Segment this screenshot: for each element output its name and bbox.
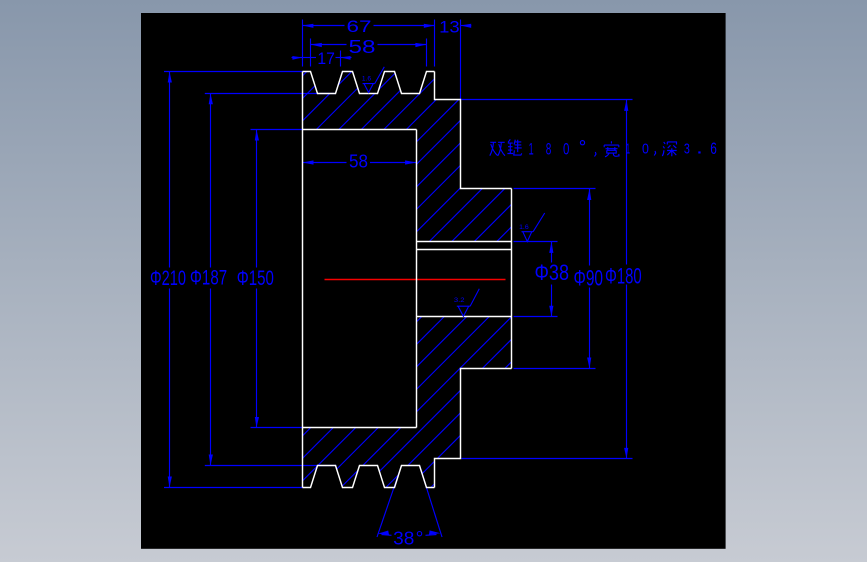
bore top edge [417, 249, 512, 251]
svg-text:0: 0 [642, 141, 649, 158]
svg-text:6: 6 [710, 140, 717, 158]
surface finish symbol groove top 1.6 [363, 67, 545, 316]
red centerline [325, 279, 506, 281]
svg-text:1.6: 1.6 [362, 77, 372, 83]
svg-text:13: 13 [439, 17, 460, 36]
dim Φ90 extension top [514, 188, 596, 190]
CJK 双 [490, 142, 505, 155]
web right face [416, 130, 418, 428]
dim 13 line stubs [461, 25, 472, 27]
Φ210 arrows [168, 72, 172, 83]
svg-text:Φ38: Φ38 [535, 260, 570, 285]
dim Φ187 extension bottom [205, 465, 337, 467]
degree circle [580, 141, 584, 145]
svg-text:1: 1 [626, 141, 630, 158]
Φ90 arrows [587, 189, 591, 201]
svg-text:67: 67 [347, 17, 372, 36]
dim 67 extension right [434, 20, 436, 67]
web top edge [303, 129, 417, 131]
dim 38 deg extension left [377, 466, 402, 538]
svg-text:Φ150: Φ150 [237, 267, 274, 290]
dim Φ187 line [210, 94, 212, 268]
dim Φ38 line [551, 242, 553, 263]
svg-text:58: 58 [349, 37, 376, 57]
67 arrows [303, 24, 314, 28]
Φ150 arrows [255, 130, 259, 141]
dim Φ180 line [626, 100, 628, 265]
pulley left face [302, 72, 304, 488]
hatch lines 45deg [0, 56, 867, 501]
keyway top line [417, 241, 512, 243]
svg-text:Φ180: Φ180 [605, 264, 642, 289]
svg-text:17: 17 [317, 49, 335, 68]
dim 58 top extension right [426, 39, 428, 67]
dim 58 top line [311, 44, 347, 46]
dim 17 line + outside arrow tails [292, 57, 303, 59]
58 top arrows [311, 43, 322, 47]
svg-text:1.6: 1.6 [519, 225, 529, 231]
dim Φ150 extension bottom [251, 427, 303, 429]
dim 38 deg extension right [420, 466, 443, 538]
bore bottom edge [417, 316, 512, 318]
svg-text:3.2: 3.2 [454, 297, 465, 304]
svg-text:Φ90: Φ90 [574, 266, 604, 291]
17 outside arrows [292, 56, 302, 60]
svg-text:3: 3 [684, 141, 690, 158]
dim Φ90 extension bottom [514, 368, 596, 370]
svg-text:1: 1 [529, 140, 534, 159]
dim Φ38 extension top [514, 241, 558, 243]
dim Φ150 line [256, 130, 258, 268]
dim Φ210 extension top [164, 71, 303, 73]
svg-text:58: 58 [349, 151, 368, 171]
38 deg arrows [377, 531, 389, 535]
degree symbol of 38 deg [417, 532, 421, 536]
surface finish symbol bore top 1.6 [522, 213, 545, 242]
fullwidth dot [698, 151, 700, 153]
dim Φ210 line [169, 72, 171, 268]
svg-text:8: 8 [546, 140, 552, 159]
Φ180 arrows [624, 100, 628, 111]
svg-text:0: 0 [563, 140, 569, 159]
dim Φ180 extension top [462, 99, 633, 101]
web bottom edge [303, 427, 417, 429]
dimension texts [150, 17, 642, 549]
dim 67 extension left [302, 20, 304, 67]
dim Φ210 extension bottom [164, 487, 303, 489]
dim Φ150 extension top [251, 129, 303, 131]
dim 38 deg arc stubs [382, 534, 392, 537]
dim 67 line [303, 25, 345, 27]
note text: 双键180°，宽10，深3.6 [490, 139, 717, 158]
CJK 宽 [604, 141, 619, 157]
surface finish symbol bore bottom 3.2 [457, 289, 480, 317]
comma 1 [595, 152, 597, 157]
svg-text:Φ187: Φ187 [190, 267, 227, 290]
dim Φ180 extension bottom [462, 458, 633, 460]
rim right face upper + step [435, 72, 512, 189]
Φ187 arrows [209, 94, 213, 105]
dim Φ38 extension bottom [514, 316, 558, 318]
top grooved profile [303, 72, 435, 94]
58 mid arrows [303, 160, 314, 164]
white profile outline [303, 72, 512, 488]
hub right face [511, 189, 513, 369]
hub bottom edge [435, 369, 512, 488]
dimension arrowheads [168, 24, 629, 535]
CJK 深 [662, 142, 676, 156]
CJK 键 [507, 139, 521, 155]
drawing canvas (black) [141, 13, 726, 549]
dim Φ90 line [589, 189, 591, 266]
dim 17 tick [340, 51, 342, 67]
svg-text:Φ210: Φ210 [150, 267, 186, 290]
Φ38 arrows [549, 242, 553, 253]
dim 58 mid line [303, 162, 347, 164]
dim Φ187 extension top [205, 93, 336, 95]
svg-text:38: 38 [393, 529, 414, 549]
blue dimension layer [164, 20, 633, 538]
comma 2 [654, 151, 656, 156]
bottom grooved profile [303, 466, 435, 488]
dim 13 extension right (long) [460, 20, 462, 100]
13 right outside arrow [461, 24, 472, 28]
dim 58 top extension left [310, 39, 312, 67]
